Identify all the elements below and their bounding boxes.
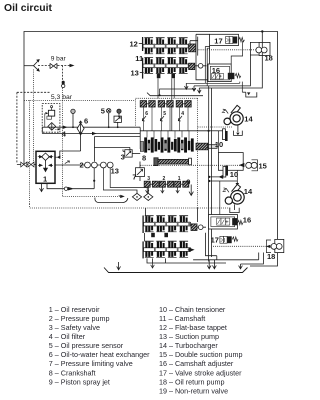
svg-text:10 – Chain tensioner: 10 – Chain tensioner: [159, 305, 226, 314]
svg-text:9 bar: 9 bar: [51, 56, 67, 63]
svg-text:18: 18: [267, 252, 275, 261]
wire cam bearing feed risers: [172, 78, 174, 131]
oil filter 4 dashed box: [42, 104, 60, 133]
camshaft row lower1 end plate: [142, 216, 144, 234]
suction strainer diamond A: [132, 190, 141, 201]
outer border frame: [24, 32, 278, 262]
svg-text:7: 7: [132, 172, 136, 181]
wire right assembly box: [196, 34, 210, 80]
svg-text:14 – Turbocharger: 14 – Turbocharger: [159, 341, 218, 350]
oil reservoir 1: [36, 151, 55, 183]
wire dotted to pump 18 lower: [213, 245, 270, 247]
suction pump box 15: [218, 153, 243, 171]
sensor oil level (dark circle + switch): [114, 109, 121, 127]
wire dashed 9bar line: [38, 65, 50, 67]
spring 16 lower: [238, 220, 243, 224]
wire risers to head: [205, 47, 209, 86]
heat exchanger 6: [77, 121, 84, 135]
flow pennant: [65, 161, 70, 164]
safety valve 3: [123, 149, 140, 157]
svg-text:8: 8: [142, 153, 146, 162]
camshaft lower legs: [151, 233, 155, 237]
turbo upper drain funnel: [234, 125, 243, 135]
spray jet cyl 1: [175, 181, 189, 193]
svg-text:15: 15: [259, 162, 267, 171]
wire dotted suction to strainers: [63, 88, 122, 197]
svg-text:3: 3: [121, 152, 125, 161]
valve bowtie B: [28, 162, 34, 167]
wire block feed lower: [94, 147, 130, 149]
arrows head oil drains: [185, 83, 189, 89]
svg-text:10: 10: [230, 170, 238, 179]
svg-text:1 – Oil reservoir: 1 – Oil reservoir: [49, 305, 100, 314]
oil pan: [104, 268, 248, 273]
svg-text:1: 1: [43, 174, 47, 183]
wire pump riser: [93, 137, 95, 162]
camshaft row2 coupling: [189, 63, 195, 69]
svg-text:18: 18: [265, 54, 273, 63]
wire filter outlet / main gallery: [42, 126, 140, 128]
svg-text:Oil circuit: Oil circuit: [4, 3, 52, 14]
svg-text:17 – Valve stroke adjuster: 17 – Valve stroke adjuster: [159, 368, 242, 377]
pressure pump 2: [85, 162, 98, 168]
svg-text:15 – Double suction pump: 15 – Double suction pump: [159, 350, 243, 359]
oil return pump 18 (upper): [250, 42, 270, 55]
suction strainer diamond B: [144, 188, 153, 201]
camshaft 11 row (upper intake): [143, 57, 190, 73]
camshaft row2 legs: [157, 74, 161, 79]
wire pump18u return: [194, 55, 250, 86]
wire pump suction lines: [55, 164, 100, 166]
svg-text:17: 17: [214, 36, 222, 45]
wire dotted mid vertical: [197, 98, 199, 165]
wire lower bank feeds: [146, 208, 198, 222]
oil pump drive bolt: [154, 158, 192, 166]
svg-text:5,3 bar: 5,3 bar: [51, 94, 73, 101]
wire HX outlet arrow: [92, 132, 97, 135]
wire return mesh right: [206, 233, 217, 260]
turbocharger 14 (lower): [223, 184, 245, 204]
turbo lower drain funnel: [230, 204, 239, 212]
valve X (9 bar restrictor): [50, 63, 57, 68]
leader 12: [139, 42, 143, 44]
spray jet cyl 2: [159, 181, 173, 193]
filter bypass dashed arrow: [55, 128, 58, 130]
svg-text:6: 6: [145, 111, 148, 117]
wire return drop with arrow: [189, 185, 193, 196]
camshaft row lower2: [144, 241, 191, 257]
svg-text:5 – Oil pressure sensor: 5 – Oil pressure sensor: [49, 341, 124, 350]
camshaft row lower1 coupling: [191, 224, 197, 231]
sump tray curve: [95, 198, 128, 203]
camshaft row lower2 end plate: [142, 241, 144, 258]
arrow reservoir drain down: [40, 183, 44, 191]
svg-text:18 – Oil return pump: 18 – Oil return pump: [159, 377, 225, 386]
camshaft row1 right bracket: [197, 37, 199, 56]
svg-text:14: 14: [244, 114, 253, 123]
svg-text:13: 13: [111, 166, 119, 175]
double suction pump 15: [246, 160, 258, 171]
spring 17 upper: [239, 37, 245, 41]
wire turbo lower feed: [209, 181, 237, 184]
arrow into pump 15 box: [240, 164, 245, 167]
wire riser to suction pump: [93, 166, 95, 189]
legend left column: [49, 305, 150, 387]
camshaft row2 end plate: [142, 58, 144, 79]
wire dotted under 5,3bar: [24, 99, 136, 101]
svg-text:3 – Safety valve: 3 – Safety valve: [49, 323, 100, 332]
wire lower bank returns: [153, 258, 166, 263]
node gallery-tensioner junction: [208, 130, 210, 132]
wire reservoir top inlet: [60, 135, 81, 157]
svg-text:4: 4: [181, 111, 184, 117]
camshaft adjuster 16 box (lower): [209, 215, 238, 230]
svg-text:16: 16: [243, 215, 251, 224]
legend right column: [159, 305, 243, 396]
node top border junction: [261, 30, 263, 32]
pressure limiting valve 7: [136, 162, 145, 182]
node suction junction: [93, 180, 95, 182]
valve stroke adjuster 17 (lower): [220, 236, 232, 243]
wire crank feeds: [147, 131, 189, 141]
piston spray jets cyl 6: [140, 101, 155, 131]
turbocharger 14 (upper): [222, 105, 243, 125]
svg-text:12 – Flat-base tappet: 12 – Flat-base tappet: [159, 323, 227, 332]
wire bowtie feed line: [17, 164, 36, 166]
wire block left edge: [139, 127, 141, 149]
svg-text:11 – Camshaft: 11 – Camshaft: [159, 314, 205, 323]
wire tensioner upper feed: [209, 130, 223, 132]
head drain tray (upper bank): [147, 93, 203, 96]
sensor oil pressure (circle-x): [107, 109, 111, 128]
svg-text:4 – Oil filter: 4 – Oil filter: [49, 332, 86, 341]
wire mid risers: [209, 131, 212, 262]
spring 17 lower: [232, 237, 238, 241]
head drain tray upper right: [242, 91, 246, 93]
svg-text:16: 16: [212, 66, 220, 75]
spray jet cyl 3: [144, 181, 158, 193]
suction pump 13: [101, 162, 114, 168]
spring 16 upper: [235, 73, 241, 77]
svg-text:17: 17: [211, 236, 219, 245]
camshaft row1 end plate: [142, 37, 144, 51]
svg-text:5: 5: [163, 111, 166, 117]
piston spray jets cyl 4: [176, 101, 191, 131]
camshaft row2 coupling circle: [198, 64, 203, 69]
svg-text:13 – Suction pump: 13 – Suction pump: [159, 332, 219, 341]
wire lower feed line: [42, 127, 140, 133]
wire dotted turbo upper: [198, 126, 232, 128]
svg-text:19 – Non-return valve: 19 – Non-return valve: [159, 386, 228, 395]
leader 13: [140, 71, 144, 73]
wire reservoir drain: [47, 183, 94, 188]
wire pan drop left: [117, 262, 121, 270]
node turbo lower junction: [208, 180, 210, 182]
filter element diamond: [48, 123, 56, 131]
breather valve (3-way) on left border: [24, 59, 40, 72]
crankshaft 8: [140, 137, 193, 152]
wire pump18u feed: [199, 32, 262, 89]
wire inter-row connector: [144, 233, 146, 241]
svg-text:12: 12: [130, 39, 138, 48]
svg-text:6: 6: [84, 117, 88, 126]
wire dotted sump boundary: [29, 100, 31, 204]
wire dotted crank level: [140, 164, 243, 166]
camshaft row lower1 coupling circle: [198, 225, 203, 230]
wire dashed left boundary: [17, 91, 50, 93]
svg-text:6 – Oil-to-water heat exchange: 6 – Oil-to-water heat exchanger: [49, 350, 150, 359]
wire dotted cam row1 to pump 18: [199, 49, 256, 51]
camshaft 12 row (upper exhaust): [143, 38, 190, 54]
svg-text:16 – Camshaft adjuster: 16 – Camshaft adjuster: [159, 359, 234, 368]
svg-text:8 – Crankshaft: 8 – Crankshaft: [49, 368, 96, 377]
crankshaft nose hatched: [196, 143, 208, 150]
piston spray jets cyl 5: [158, 101, 173, 131]
camshaft row1 coupling: [189, 44, 196, 52]
camshaft row lower2 end arrow: [188, 248, 194, 251]
svg-text:9: 9: [186, 177, 190, 186]
svg-text:13: 13: [131, 69, 139, 78]
node tensioner lower junction: [208, 176, 210, 178]
valve 5,3 bar relief: [62, 81, 65, 88]
spray jet dotted box (upper bank): [136, 98, 198, 125]
filter bypass valve: [45, 106, 55, 128]
camshaft row lower1: [144, 216, 191, 232]
wire tensioner lower feed: [209, 176, 223, 179]
valve stroke adjuster 17 box (upper): [210, 34, 239, 45]
chain tensioner 10 (lower): [223, 166, 228, 177]
sensor (temperature) circle: [71, 109, 75, 127]
crankshaft stub shaft: [208, 145, 217, 149]
node gallery junction dots: [72, 126, 74, 128]
svg-text:14: 14: [244, 187, 253, 196]
svg-text:5: 5: [101, 106, 105, 115]
valve bowtie A: [21, 162, 27, 167]
svg-text:2 – Pressure pump: 2 – Pressure pump: [49, 314, 110, 323]
chain tensioner 10 (upper): [223, 129, 228, 141]
wire block top / main gallery: [140, 130, 208, 132]
oil return pump 18 (lower): [266, 239, 284, 252]
camshaft adjuster 16 box (upper): [208, 64, 234, 82]
arrow 9bar right: [70, 64, 75, 68]
wire block feed upper: [94, 136, 140, 138]
wire dashed down from X valve: [62, 66, 64, 81]
svg-text:10: 10: [215, 140, 223, 149]
non-return valve 19: [64, 187, 72, 191]
svg-text:7 – Pressure limiting valve: 7 – Pressure limiting valve: [49, 359, 133, 368]
wire tray riser: [160, 89, 196, 95]
svg-text:9 – Piston spray jet: 9 – Piston spray jet: [49, 377, 110, 386]
wire dotted from breather down: [33, 70, 35, 164]
